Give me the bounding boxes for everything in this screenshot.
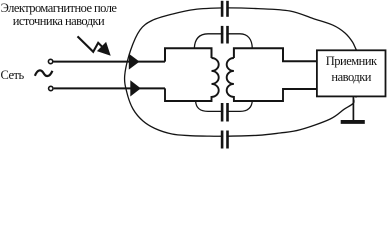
primary loop outline — [165, 48, 212, 61]
mask loop sliver right of ground stem — [355, 98, 366, 107]
electromagnetic field loop (outer ellipse) — [125, 8, 370, 136]
capacitor C2 (inner top) plates — [221, 26, 224, 44]
arrowhead on top wire — [129, 54, 140, 70]
transformer secondary winding L2 — [227, 58, 317, 101]
label: Приемник наводки — [317, 54, 386, 85]
capacitor C3 (inner bottom) plates — [221, 103, 224, 122]
inner top coupling arc — [194, 34, 252, 48]
label: Сеть — [1, 68, 24, 83]
terminal circle (bottom) — [49, 86, 53, 90]
wire: top mains wire — [54, 61, 166, 63]
transformer primary winding L1 — [165, 58, 219, 101]
secondary loop outline (top) — [234, 48, 317, 61]
ground — [352, 96, 354, 120]
terminal circle (top) — [48, 59, 52, 63]
interference arrow (zigzag) — [78, 36, 104, 51]
capacitor C1 (outer top) plates — [221, 1, 224, 17]
capacitor gap masks — [223, 3, 226, 13]
receiver box (covers ellipse right side) — [317, 50, 386, 96]
wire: bottom mains wire — [54, 87, 165, 89]
label: Электромагнитное поле источника наводки — [0, 2, 117, 30]
inner bottom coupling arc — [196, 101, 253, 112]
AC source tilde — [35, 70, 53, 76]
capacitor C4 (outer bottom) plates — [221, 131, 224, 149]
arrowhead on bottom wire — [130, 80, 141, 96]
